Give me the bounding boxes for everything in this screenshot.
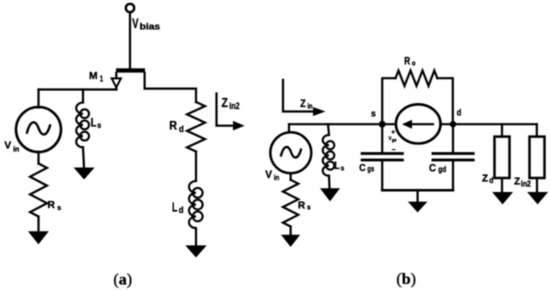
svg-text:s: s [341, 163, 345, 172]
svg-text:C: C [429, 163, 436, 175]
svg-text:Z: Z [482, 174, 488, 185]
svg-text:V: V [132, 15, 139, 31]
svg-text:bias: bias [140, 22, 161, 32]
svg-text:(b): (b) [396, 271, 416, 288]
svg-text:d: d [489, 175, 493, 185]
svg-text:V: V [4, 140, 11, 151]
svg-text:L: L [334, 160, 340, 172]
svg-text:in2: in2 [229, 101, 239, 112]
svg-text:s: s [57, 203, 61, 212]
svg-text:d: d [179, 124, 184, 135]
svg-text:Z: Z [300, 98, 306, 110]
svg-text:R: R [404, 55, 410, 67]
svg-text:1: 1 [100, 74, 104, 84]
svg-text:R: R [298, 200, 306, 212]
svg-text:gd: gd [438, 165, 446, 174]
svg-text:d: d [457, 108, 462, 119]
svg-text:gs: gs [392, 139, 397, 144]
svg-text:in2: in2 [521, 179, 532, 188]
svg-text:R: R [47, 199, 55, 211]
svg-text:C: C [359, 162, 366, 174]
svg-text:in: in [13, 145, 19, 154]
svg-text:Z: Z [514, 177, 520, 188]
svg-text:L: L [91, 118, 97, 130]
svg-text:s: s [307, 203, 311, 212]
svg-text:o: o [412, 58, 416, 67]
svg-text:gs: gs [367, 165, 374, 174]
svg-text:L: L [172, 201, 178, 215]
svg-text:M: M [89, 70, 98, 82]
svg-text:Z: Z [222, 95, 228, 110]
svg-text:d: d [179, 205, 184, 215]
svg-text:in: in [308, 102, 313, 111]
svg-text:in: in [274, 173, 280, 182]
svg-text:(a): (a) [113, 271, 132, 288]
svg-text:V: V [265, 169, 272, 181]
svg-text:R: R [169, 119, 177, 133]
svg-text:s: s [97, 121, 101, 130]
svg-text:s: s [371, 109, 376, 120]
